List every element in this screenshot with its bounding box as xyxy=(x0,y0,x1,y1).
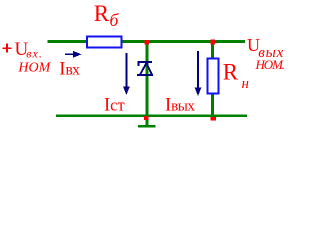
svg-text:Iвых: Iвых xyxy=(165,95,195,115)
svg-text:н: н xyxy=(242,76,249,92)
svg-text:б: б xyxy=(110,10,120,30)
svg-text:вх.: вх. xyxy=(26,46,43,60)
svg-text:НОМ: НОМ xyxy=(17,61,51,76)
svg-text:Iвх: Iвх xyxy=(59,59,80,79)
svg-text:Iст: Iст xyxy=(104,95,125,115)
svg-text:R: R xyxy=(94,1,110,26)
svg-text:НОМ.: НОМ. xyxy=(255,57,285,72)
svg-text:R: R xyxy=(223,59,239,84)
